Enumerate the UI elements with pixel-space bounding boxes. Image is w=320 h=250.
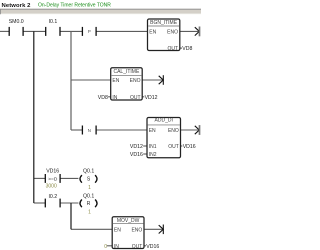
- svg-text:Q0.1: Q0.1: [83, 194, 94, 200]
- svg-text:IN2: IN2: [149, 152, 157, 158]
- svg-text:P: P: [88, 29, 91, 34]
- svg-text:VD12: VD12: [130, 144, 143, 150]
- svg-text:EN: EN: [114, 227, 121, 233]
- svg-text:EN: EN: [149, 29, 156, 35]
- svg-text:EN: EN: [149, 128, 156, 134]
- svg-text:ENO: ENO: [167, 29, 178, 35]
- svg-text:CAL_ITIME: CAL_ITIME: [113, 69, 140, 75]
- svg-text:OUT: OUT: [167, 46, 178, 52]
- svg-text:ENO: ENO: [168, 128, 179, 134]
- svg-text:On-Delay Timer Retentive TONR: On-Delay Timer Retentive TONR: [38, 3, 111, 9]
- svg-text:3000: 3000: [46, 184, 57, 190]
- svg-text:VD16: VD16: [183, 144, 196, 150]
- svg-text:EN: EN: [112, 78, 119, 84]
- svg-text:SM0.0: SM0.0: [9, 19, 24, 25]
- svg-text:ENO: ENO: [130, 78, 141, 84]
- svg-text:IN1: IN1: [149, 144, 157, 150]
- svg-text:IN: IN: [114, 244, 119, 250]
- svg-text:BGN_ITIME: BGN_ITIME: [150, 20, 178, 26]
- svg-text:ENO: ENO: [131, 227, 142, 233]
- svg-text:OUT: OUT: [168, 144, 179, 150]
- svg-text:VD8: VD8: [98, 95, 108, 101]
- svg-text:>=D: >=D: [48, 176, 58, 182]
- svg-text:1: 1: [88, 185, 91, 191]
- svg-text:IN: IN: [112, 95, 117, 101]
- svg-text:VD16: VD16: [130, 152, 143, 158]
- svg-text:I0.1: I0.1: [49, 19, 58, 25]
- svg-text:VD16: VD16: [146, 244, 159, 250]
- svg-text:ADD_DI: ADD_DI: [155, 118, 173, 124]
- svg-text:MOV_DW: MOV_DW: [117, 218, 140, 224]
- svg-text:VD12: VD12: [145, 95, 158, 101]
- svg-text:1: 1: [88, 209, 91, 215]
- svg-text:OUT: OUT: [130, 95, 141, 101]
- svg-text:VD16: VD16: [46, 168, 59, 174]
- svg-text:OUT: OUT: [132, 244, 143, 250]
- svg-text:Network 2: Network 2: [2, 3, 32, 9]
- svg-text:I0.2: I0.2: [48, 194, 57, 200]
- svg-text:N: N: [88, 128, 91, 133]
- svg-text:Q0.1: Q0.1: [83, 168, 94, 174]
- svg-text:VD8: VD8: [182, 46, 192, 52]
- svg-text:R: R: [87, 201, 91, 207]
- svg-text:0: 0: [104, 244, 107, 250]
